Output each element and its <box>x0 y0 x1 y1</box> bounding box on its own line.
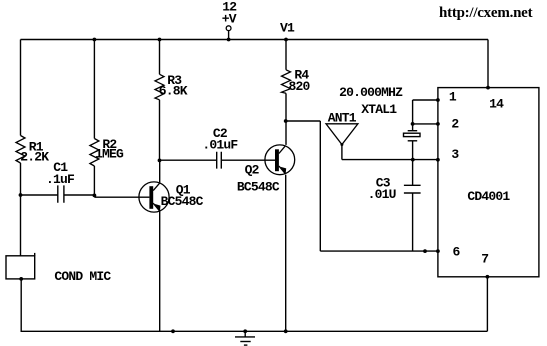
power +V supply <box>222 0 238 41</box>
transistor Q1 <box>139 182 204 212</box>
node offset dot pin6 row <box>423 249 427 253</box>
wire R2 zigzag to junction <box>93 166 95 195</box>
svg-text:14: 14 <box>489 97 504 112</box>
svg-text:.1uF: .1uF <box>46 172 75 187</box>
wire R4 to Q2 collector <box>285 93 287 145</box>
svg-text:XTAL1: XTAL1 <box>361 102 397 117</box>
wire left vertical upper (rail to R1) <box>20 40 22 136</box>
svg-text:6: 6 <box>453 245 461 260</box>
svg-text:V1: V1 <box>280 20 295 35</box>
svg-text:BC548C: BC548C <box>161 194 204 209</box>
node pin1 at IC <box>436 98 440 102</box>
wire left vertical (R1 to mic) <box>20 163 22 256</box>
wire pin6 row <box>320 250 438 252</box>
wire R4 vertical upper <box>285 40 287 70</box>
wire R2 vertical upper <box>93 40 95 139</box>
node V1 <box>280 20 295 41</box>
node C1 left junction <box>19 193 23 197</box>
svg-text:.01uF: .01uF <box>202 137 238 152</box>
svg-text:2: 2 <box>451 117 459 132</box>
wire Q1 emitter down to bottom rail <box>159 212 161 332</box>
node pin7 bottom <box>486 275 490 279</box>
svg-text:820: 820 <box>289 79 311 94</box>
node R3 top <box>158 38 162 42</box>
svg-text:COND MIC: COND MIC <box>54 269 111 284</box>
wire top rail down to IC pin14 <box>487 40 489 88</box>
svg-text:1MEG: 1MEG <box>95 146 124 161</box>
node R3 bottom junction <box>158 159 162 163</box>
capacitor C1 <box>46 160 75 203</box>
resistor R4 <box>282 68 311 94</box>
wire C2 to Q2 base <box>221 159 275 161</box>
wire top rail <box>21 39 489 41</box>
transistor Q2 <box>237 145 295 194</box>
ground <box>235 329 255 345</box>
wire C2 row left <box>160 159 217 161</box>
wire Q2 collector branch horizontal <box>286 120 321 122</box>
svg-text:20.000MHZ: 20.000MHZ <box>339 85 403 100</box>
svg-text:2.2K: 2.2K <box>20 149 49 164</box>
svg-text:7: 7 <box>481 252 488 267</box>
svg-text:.01U: .01U <box>368 187 396 202</box>
node crystal top junction <box>411 122 415 126</box>
wire C1 to R2 junction <box>64 194 95 196</box>
node pin6 at IC <box>436 249 440 253</box>
resistor R2 <box>90 137 124 166</box>
crystal XTAL1 symbol <box>404 124 421 160</box>
svg-text:6.8K: 6.8K <box>159 84 188 99</box>
node Q2 collector branch junction <box>284 119 288 123</box>
wire pin1 row <box>413 100 438 124</box>
wire pin3 row <box>342 159 438 161</box>
wire branch vertical down to pin6 row <box>319 121 321 251</box>
wire base row to Q1 <box>94 196 149 198</box>
node pin14 top <box>486 86 490 90</box>
node bottom rail left of Q1 emitter <box>171 329 175 333</box>
node pin3 at IC <box>436 158 440 162</box>
wire junction down to Q1 collector <box>159 160 161 182</box>
svg-text:Q2: Q2 <box>245 163 260 178</box>
resistor R3 <box>155 73 188 100</box>
svg-text:CD4001: CD4001 <box>467 189 510 204</box>
resistor R1 <box>16 136 49 165</box>
wire pin2 row <box>413 123 438 125</box>
node Q2 emitter bottom <box>284 329 288 333</box>
capacitor C3 <box>368 160 421 252</box>
svg-text:http://cxem.net: http://cxem.net <box>439 5 533 21</box>
wire pin7 down to bottom rail <box>486 277 488 332</box>
wire bottom rail <box>21 330 488 332</box>
wire C1 row left <box>21 194 58 196</box>
wire Q2 emitter to bottom rail <box>285 175 287 332</box>
wire R3 to C2 junction <box>159 100 161 160</box>
svg-text:3: 3 <box>451 147 459 162</box>
capacitor C2 <box>202 126 238 169</box>
antenna ANT1 <box>326 111 358 160</box>
svg-text:+V: +V <box>222 12 237 27</box>
IC U1 CD4001 <box>438 88 539 277</box>
microphone COND MIC <box>6 253 111 331</box>
node pin3 crystal junction <box>411 158 415 162</box>
node R2 bottom junction <box>93 194 97 198</box>
svg-text:BC548C: BC548C <box>237 179 280 194</box>
wire R3 vertical upper <box>159 40 161 75</box>
node R2 top <box>93 38 97 42</box>
svg-text:1: 1 <box>449 89 457 104</box>
node pin2 at IC <box>436 122 440 126</box>
